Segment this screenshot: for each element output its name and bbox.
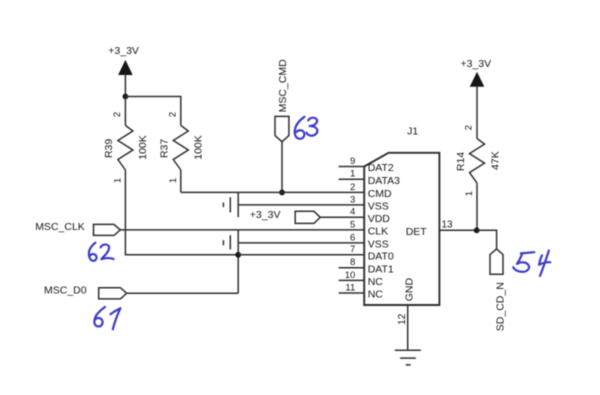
wire cap top vertical stub [237,192,239,217]
resistor R37 [159,112,205,183]
junction dot on CMD line [279,190,285,196]
wire from junction to R39 top [124,97,126,126]
svg-text:DAT0: DAT0 [368,251,394,263]
svg-text:+3_3V: +3_3V [108,45,139,57]
pin 7 DAT0 [350,244,394,262]
svg-text:13: 13 [442,219,454,230]
wire MSC_D0 net to riser [127,292,239,294]
wire R14 bottom to DET junction [476,183,478,230]
svg-text:R37: R37 [159,139,171,158]
svg-text:8: 8 [350,257,355,268]
wire R39 bottom down to DAT0 row [125,170,238,255]
junction dot on DAT0 riser [235,252,241,258]
junction dot at left power rail [123,94,129,100]
svg-text:DET: DET [406,226,428,238]
pin 1 DATA3 [339,169,401,187]
pin 11 NC [339,282,384,300]
svg-text:2: 2 [350,182,355,193]
power flag +3_3V mid at VDD [250,209,320,223]
svg-text:DAT2: DAT2 [368,162,394,174]
pin 12 GND [397,278,415,351]
svg-text:CLK: CLK [368,226,388,238]
pin 2 CMD [350,182,392,200]
handwritten 62 [89,243,114,261]
wire MSC_CMD flag to CMD line [281,142,283,193]
svg-text:R39: R39 [103,139,115,158]
power symbol +3_3V left [108,45,139,75]
global label MSC_CMD [275,59,289,142]
svg-text:J1: J1 [407,126,418,138]
svg-text:9: 9 [350,156,355,167]
wire from junction to R37 top [125,97,180,126]
svg-text:6: 6 [350,232,355,243]
svg-text:NC: NC [368,289,384,301]
pin 8 DAT1 [339,257,394,275]
wire VSS pin6 net [238,242,364,244]
svg-text:11: 11 [345,282,355,293]
svg-text:GND: GND [403,278,415,302]
pin 10 NC [339,270,384,288]
svg-text:1: 1 [464,191,475,196]
svg-text:DAT1: DAT1 [368,263,394,275]
capacitor C bottom (plates) [223,235,230,249]
junction dot on DET net [474,227,480,233]
svg-text:10: 10 [345,270,356,281]
wire cap bottom vertical stub [237,230,239,293]
svg-text:2: 2 [112,112,123,117]
pin 6 VSS [350,232,389,250]
svg-text:VSS: VSS [368,239,389,251]
svg-text:MSC_CLK: MSC_CLK [35,221,85,233]
svg-text:100K: 100K [193,135,205,160]
pin 4 VDD [350,207,390,225]
pin 13 DET [406,219,477,238]
svg-text:CMD: CMD [368,188,392,200]
svg-text:VSS: VSS [368,201,389,213]
wire DET junction to SD_CD_N flag [477,230,497,249]
global label SD_CD_N [490,249,507,331]
svg-text:100K: 100K [137,135,149,160]
pin 9 DAT2 [339,156,394,174]
svg-text:1: 1 [350,169,355,180]
svg-text:MSC_D0: MSC_D0 [44,285,87,297]
wire CLK net to pin 5 [120,229,364,231]
svg-text:3: 3 [350,194,355,205]
wire from left power arrow to junction [124,75,126,97]
svg-text:1: 1 [168,178,179,183]
svg-text:2: 2 [464,125,475,130]
svg-text:5: 5 [350,219,355,230]
capacitor C top (plates) [223,197,230,212]
svg-text:12: 12 [397,313,408,325]
svg-text:7: 7 [350,244,355,255]
svg-text:VDD: VDD [368,213,391,225]
handwritten 63 [295,117,318,139]
wire CMD net to pin 2 [181,191,364,193]
svg-text:+3_3V: +3_3V [460,58,491,70]
svg-text:R14: R14 [455,152,467,171]
handwritten 61 [94,307,120,329]
wire right power arrow to R14 [476,86,478,138]
svg-text:4: 4 [350,207,355,218]
connector J1 body [364,126,439,306]
global label MSC_D0 [44,285,127,299]
power symbol +3_3V right [460,58,491,86]
wire VDD pin4 net [320,216,364,218]
wire R37 bottom down to CMD row [180,170,182,192]
wire VSS pin3 net [238,204,364,206]
svg-text:MSC_CMD: MSC_CMD [277,59,289,113]
handwritten 54 [513,251,550,276]
global label MSC_CLK [35,221,120,236]
svg-text:47K: 47K [490,151,502,170]
svg-text:+3_3V: +3_3V [250,209,281,221]
svg-text:NC: NC [368,276,384,288]
svg-text:DATA3: DATA3 [368,175,400,187]
ground symbol [395,350,421,365]
pin 3 VSS [350,194,389,212]
svg-text:SD_CD_N: SD_CD_N [495,282,507,331]
pin 5 CLK [350,219,388,237]
wire DAT0 net to pin 7 [238,254,364,256]
resistor R39 [103,112,149,183]
svg-text:1: 1 [112,178,123,183]
resistor R14 [455,125,502,196]
svg-text:2: 2 [167,112,178,117]
